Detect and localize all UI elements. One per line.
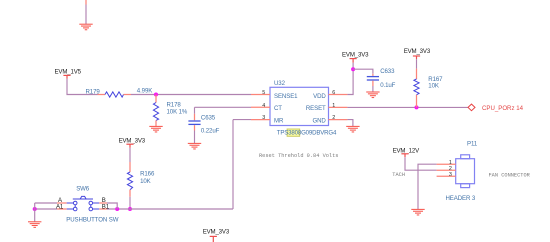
resistor R178 <box>153 95 158 127</box>
svg-text:R179: R179 <box>86 88 101 95</box>
svg-text:SENSE1: SENSE1 <box>274 93 298 100</box>
pin 4 stub CT <box>251 106 270 108</box>
svg-text:A1: A1 <box>56 203 64 210</box>
wire CT corner down to C635 <box>194 107 196 114</box>
svg-text:GND: GND <box>312 117 326 124</box>
node junction RESET/R167 <box>415 105 419 109</box>
resistor R167 <box>414 69 419 108</box>
pin 2 stub GND <box>329 119 348 121</box>
wire junction to C633 <box>353 69 373 74</box>
svg-text:MR: MR <box>274 117 284 124</box>
node junction rail B <box>115 207 119 211</box>
capacitor C633 <box>367 74 379 86</box>
wire EVM_12V to P11 pin2 <box>405 157 437 170</box>
svg-text:2: 2 <box>332 115 335 121</box>
svg-text:4: 4 <box>262 103 265 109</box>
svg-text:B1: B1 <box>102 203 110 210</box>
svg-text:C635: C635 <box>201 115 216 122</box>
pin 3 stub MR <box>251 119 270 121</box>
wire top-left stub <box>85 0 87 5</box>
svg-text:1: 1 <box>332 103 335 109</box>
pin 3 stub P11 <box>437 175 456 177</box>
svg-text:U32: U32 <box>274 80 286 87</box>
svg-text:EVM_1V5: EVM_1V5 <box>55 69 82 76</box>
wire RESET rail <box>347 106 467 108</box>
ground under R178 <box>149 126 162 132</box>
switch contact circles right <box>89 201 93 205</box>
wire MR pin3 horizontal <box>233 119 251 121</box>
node junction VDD/C633 <box>351 67 355 71</box>
pushbutton SW6 actuator <box>73 196 93 199</box>
pin 5 stub SENSE1 <box>251 94 270 96</box>
svg-text:5: 5 <box>262 90 265 96</box>
svg-text:10K: 10K <box>428 83 439 90</box>
pin 1 stub P11 <box>437 163 456 165</box>
IC U32 (TPS3808) body <box>270 87 329 125</box>
ground under U32 GND <box>346 126 359 132</box>
wire P11 pin1 to ground <box>418 164 437 209</box>
power flag EVM_3V3 (R167) <box>413 56 420 59</box>
svg-text:HEADER 3: HEADER 3 <box>446 195 476 202</box>
resistor R166 <box>127 162 132 197</box>
svg-text:TPS3808G09DBVRG4: TPS3808G09DBVRG4 <box>277 130 337 137</box>
svg-text:R166: R166 <box>140 170 155 177</box>
svg-text:0.1uF: 0.1uF <box>380 82 395 89</box>
wire A1 row <box>57 208 67 210</box>
resistor R179 <box>98 92 132 97</box>
svg-text:C633: C633 <box>380 68 395 75</box>
wire CT pin4 horizontal <box>195 106 252 108</box>
wire GND pin2 to ground <box>347 120 353 127</box>
svg-text:3: 3 <box>262 115 265 121</box>
capacitor C635 <box>188 114 200 131</box>
svg-text:Reset Threhold 0.84 Volts: Reset Threhold 0.84 Volts <box>259 153 338 159</box>
svg-text:0.22uF: 0.22uF <box>201 128 220 135</box>
wire flag to R167 <box>416 59 418 69</box>
power flag EVM_12V <box>401 154 408 157</box>
svg-text:PUSHBUTTON SW: PUSHBUTTON SW <box>66 217 118 224</box>
svg-text:P11: P11 <box>467 140 478 147</box>
wire flag to R166 <box>129 148 131 162</box>
node junction SENSE1/R178 <box>154 93 158 97</box>
value highlight 3808 <box>287 129 300 136</box>
wire MR vertical down <box>232 120 234 209</box>
svg-text:10K 1%: 10K 1% <box>167 108 188 115</box>
wire switch left vertical <box>34 203 36 222</box>
ground under switch <box>28 222 41 228</box>
svg-text:4.99K: 4.99K <box>137 88 152 95</box>
power flag EVM_1V5 <box>63 75 70 78</box>
svg-text:EVM_3V3: EVM_3V3 <box>342 51 369 58</box>
wire EVM_1V5 to R179 <box>67 79 98 95</box>
wire A row <box>35 202 57 204</box>
svg-text:6: 6 <box>332 90 335 96</box>
svg-text:3: 3 <box>449 172 452 178</box>
power flag EVM_3V3 (bottom) <box>210 236 217 242</box>
svg-text:RESET: RESET <box>306 105 326 112</box>
svg-text:TACH: TACH <box>392 172 405 178</box>
svg-text:SW6: SW6 <box>76 186 90 193</box>
offpage connector CPU_PORz <box>468 104 475 111</box>
wire top-left vertical <box>85 5 87 25</box>
svg-text:EVM_3V3: EVM_3V3 <box>203 229 230 236</box>
wire bottom rail left <box>35 208 57 210</box>
ground under C633 <box>366 92 379 98</box>
power flag EVM_3V3 (R166) <box>126 144 133 148</box>
svg-text:CPU_PORz 14: CPU_PORz 14 <box>482 105 524 112</box>
svg-text:CT: CT <box>274 105 282 112</box>
ground top-left <box>79 24 92 30</box>
svg-text:R178: R178 <box>167 101 182 108</box>
ground under P11 <box>411 209 424 215</box>
svg-text:10K: 10K <box>140 178 151 185</box>
svg-text:VDD: VDD <box>313 93 326 100</box>
power flag EVM_3V3 (U32) <box>350 59 357 63</box>
wire C633 to ground <box>372 86 374 92</box>
svg-text:EVM_3V3: EVM_3V3 <box>119 137 146 144</box>
wire R179 to U32 pin5 <box>131 94 251 96</box>
svg-text:EVM_3V3: EVM_3V3 <box>404 48 431 55</box>
pin 1 stub RESET <box>329 106 348 108</box>
pin 6 stub VDD <box>329 94 348 96</box>
wire bottom rail right <box>107 208 233 210</box>
wire VDD to junction <box>347 63 353 95</box>
wire R166 to rail <box>129 197 131 209</box>
wire B1 row <box>93 208 100 210</box>
wire C635 to ground <box>194 131 196 144</box>
svg-text:FAN CONNECTOR: FAN CONNECTOR <box>489 172 531 178</box>
node junction rail left <box>33 207 37 211</box>
switch contact circles left <box>73 201 77 205</box>
wire B row <box>93 202 100 204</box>
pin 2 stub P11 <box>437 169 456 171</box>
ground under C635 <box>188 143 201 149</box>
node junction R166/rail <box>128 207 132 211</box>
connector P11 body <box>456 159 475 184</box>
